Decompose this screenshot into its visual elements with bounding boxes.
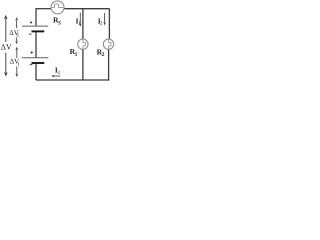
arrow dV2 shaft upper <box>16 21 18 28</box>
battery B2 long plate <box>22 25 48 27</box>
arrow dV2 up head <box>15 17 18 21</box>
resistor R3 circle <box>51 1 64 14</box>
current arrow I3 shaft <box>54 75 60 77</box>
resistor R1 squiggle <box>83 40 85 49</box>
arrow total dV down head <box>4 72 8 77</box>
battery B1 plus sign <box>31 51 33 53</box>
battery B1 long plate <box>22 57 48 59</box>
wire left vertical lower (battery 1 to bottom wire) <box>35 64 37 80</box>
svg-text:3: 3 <box>58 20 61 26</box>
resistor R2 squiggle <box>109 40 111 49</box>
wire left vertical middle (battery 2 to battery 1) <box>35 32 37 58</box>
current arrow I1 head <box>79 23 82 26</box>
resistor R1 circle <box>78 39 88 49</box>
arrow total dV shaft lower <box>5 53 7 74</box>
wire bottom <box>36 79 109 81</box>
wire below R2 to bottom wire <box>108 49 110 80</box>
battery B2 plus sign <box>30 21 32 23</box>
svg-text:2: 2 <box>102 52 105 58</box>
arrow total dV up head <box>4 15 8 20</box>
svg-text:2: 2 <box>16 33 19 39</box>
current arrow I2 head <box>103 22 106 25</box>
resistor R3 squiggle <box>52 4 64 8</box>
arrow dV2 shaft lower <box>16 38 18 42</box>
svg-text:1: 1 <box>75 52 78 58</box>
current arrow I2 shaft <box>104 13 106 23</box>
arrow dV1 up head <box>15 47 18 51</box>
arrow dV1 shaft lower <box>16 66 18 74</box>
battery B1 short plate <box>32 62 45 64</box>
arrow dV1 down head <box>15 74 18 78</box>
arrow dV2 down head <box>15 41 18 45</box>
battery B2 minus sign <box>29 33 32 35</box>
svg-text:1: 1 <box>78 20 81 26</box>
svg-text:2: 2 <box>100 20 103 26</box>
arrow total dV shaft upper <box>5 19 7 42</box>
battery B2 short plate <box>32 30 45 32</box>
wire top from battery to R3 <box>36 8 51 10</box>
current arrow I1 shaft <box>79 13 81 24</box>
svg-text:ΔV: ΔV <box>1 43 12 52</box>
wire top from R3 to top-right corner <box>64 8 109 10</box>
wire left vertical upper (corner to battery 2) <box>35 8 37 26</box>
svg-text:1: 1 <box>17 61 20 67</box>
svg-text:3: 3 <box>57 70 60 76</box>
current arrow I3 head <box>51 75 54 78</box>
wire middle branch above R1 <box>82 9 84 40</box>
arrow dV1 shaft upper <box>16 50 18 58</box>
battery B1 minus sign <box>30 64 33 66</box>
wire below R1 to bottom wire <box>82 49 84 80</box>
wire right vertical (corner to R2) <box>108 9 110 40</box>
resistor R2 circle <box>103 39 113 49</box>
